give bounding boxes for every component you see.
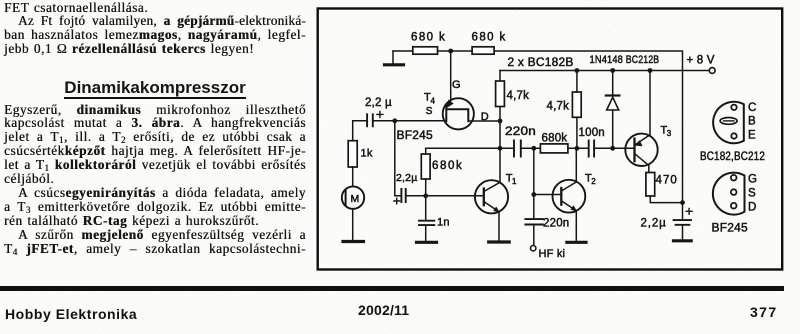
ground C6 [674, 239, 692, 242]
transistor T4 jFET BF245 [397, 79, 489, 142]
pinout BF245 package [712, 173, 758, 235]
footer texts [5, 306, 137, 322]
svg-text:M: M [351, 193, 360, 205]
capacitor C1 2,2u input [365, 97, 392, 126]
wire gate [450, 51, 452, 100]
body paragraphs [4, 103, 306, 256]
svg-text:BF245: BF245 [712, 221, 748, 235]
node rail T3 [648, 68, 653, 73]
transistor T3 BC212B [613, 71, 672, 173]
resistor 680k vertical [421, 148, 462, 196]
svg-text:2,2 µ: 2,2 µ [365, 97, 392, 109]
svg-text:220n: 220n [505, 126, 536, 138]
capacitor C4 220n output [525, 217, 569, 245]
svg-text:680k: 680k [542, 133, 568, 145]
svg-text:BF245: BF245 [397, 128, 433, 142]
svg-text:1n: 1n [437, 217, 450, 229]
microphone M [342, 186, 364, 208]
terminal HF ki [531, 246, 536, 251]
svg-text:3: 3 [667, 129, 672, 138]
node drain [498, 119, 503, 124]
capacitor C3 220n [505, 126, 536, 157]
svg-text:1: 1 [512, 177, 517, 186]
svg-text:680 k: 680 k [472, 32, 506, 44]
svg-text:4: 4 [431, 97, 436, 106]
capacitor C6 2,2u filter [641, 203, 693, 240]
svg-text:G: G [452, 79, 461, 91]
svg-text:220n: 220n [543, 217, 569, 229]
svg-text:680k: 680k [432, 160, 462, 172]
wire 1k to mic [352, 167, 354, 186]
node rail diode [610, 68, 615, 73]
svg-text:100n: 100n [579, 127, 605, 139]
wire drain vertical [468, 71, 500, 149]
svg-text:S: S [748, 188, 756, 200]
svg-text:D: D [748, 202, 757, 214]
svg-text:C: C [748, 102, 757, 114]
footer thick rule [0, 286, 784, 291]
wire S tap down [395, 121, 402, 196]
left text column : trailing paragraph [4, 1, 306, 57]
pinout BC182/BC212 package [700, 102, 765, 163]
wire 220n right down [533, 148, 535, 219]
svg-text:2,2µ: 2,2µ [641, 217, 667, 229]
node bus 220n right [531, 146, 536, 151]
svg-text:S: S [426, 106, 433, 117]
capacitor 1n [419, 196, 450, 241]
svg-text:G: G [748, 174, 757, 186]
capacitor C5 100n [579, 127, 605, 157]
svg-text:4,7k: 4,7k [507, 90, 530, 102]
svg-text:BC212B: BC212B [626, 54, 660, 66]
svg-text:2,2µ: 2,2µ [396, 172, 417, 184]
wire mic to ground [352, 209, 354, 241]
capacitor C2 2,2u [394, 172, 418, 204]
svg-text:B: B [748, 116, 756, 128]
node N1 base T1 [423, 193, 428, 198]
transistor T2 BC182B [534, 148, 596, 240]
svg-text:HF ki: HF ki [539, 248, 566, 260]
wire +8V rail [500, 70, 709, 72]
transistor T1 BC182B [426, 148, 517, 240]
resistor 680k R1 [411, 32, 445, 55]
wire mid bus [426, 147, 625, 149]
node diode anode [610, 146, 615, 151]
diode 1N4148 [606, 71, 620, 149]
node S tap [392, 118, 397, 123]
resistor 1k [348, 141, 373, 167]
ground 1n [417, 241, 437, 244]
ground T2 [567, 241, 586, 244]
heading [4, 78, 306, 98]
terminal +8V [709, 68, 715, 74]
svg-text:2 x BC182B: 2 x BC182B [508, 55, 574, 69]
svg-text:1k: 1k [361, 148, 373, 160]
node bus-collector T1 [498, 146, 503, 151]
node filter [680, 200, 685, 205]
resistor 4,7k first [496, 81, 529, 107]
svg-text:1N4148: 1N4148 [590, 54, 624, 66]
ground [385, 63, 404, 66]
node T2 base tap [531, 192, 536, 197]
node rail 4,7k [575, 68, 580, 73]
svg-text:2: 2 [591, 177, 596, 186]
resistor 680k horizontal [540, 133, 568, 153]
resistor 470 [646, 173, 683, 203]
wire top bias line [393, 51, 683, 203]
svg-text:BC182,BC212: BC182,BC212 [700, 151, 765, 163]
wire C2 to node N1 [406, 195, 426, 197]
resistor 680k R2 [472, 32, 506, 55]
wire C1 to S and mic branch [353, 121, 447, 141]
svg-text:E: E [748, 130, 756, 142]
svg-text:4,7k: 4,7k [547, 101, 570, 113]
wire ground stub left [392, 51, 394, 64]
svg-text:+ 8 V: + 8 V [687, 55, 715, 67]
svg-text:470: 470 [656, 175, 678, 187]
node gate tap [448, 49, 453, 54]
resistor 4,7k second [547, 71, 582, 149]
svg-text:680 k: 680 k [411, 32, 445, 44]
ground T1 [489, 240, 510, 243]
node bus 680k right [575, 146, 580, 151]
ground [343, 240, 364, 243]
